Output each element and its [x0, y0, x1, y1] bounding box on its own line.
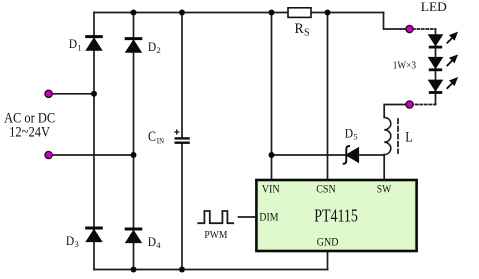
svg-text:L: L — [405, 129, 413, 146]
svg-text:3: 3 — [75, 239, 79, 249]
svg-text:R: R — [295, 21, 304, 37]
svg-text:SW: SW — [377, 181, 392, 195]
svg-text:LED: LED — [421, 0, 447, 14]
svg-text:GND: GND — [317, 234, 339, 248]
svg-text:2: 2 — [157, 45, 161, 55]
svg-text:12~24V: 12~24V — [9, 125, 50, 141]
svg-text:IN: IN — [157, 136, 164, 146]
svg-text:D: D — [148, 234, 156, 249]
svg-text:1W×3: 1W×3 — [393, 59, 416, 71]
svg-text:D: D — [69, 36, 77, 51]
svg-text:VIN: VIN — [262, 181, 280, 195]
svg-text:DIM: DIM — [259, 209, 278, 223]
svg-text:D: D — [66, 233, 74, 248]
svg-text:5: 5 — [353, 132, 357, 142]
svg-text:1: 1 — [77, 42, 81, 52]
svg-text:D: D — [345, 126, 353, 141]
svg-text:D: D — [148, 39, 156, 54]
svg-text:4: 4 — [156, 240, 161, 250]
svg-text:CSN: CSN — [316, 181, 336, 195]
svg-text:PWM: PWM — [204, 229, 227, 241]
svg-text:S: S — [304, 28, 310, 39]
svg-text:C: C — [148, 129, 156, 145]
svg-text:PT4115: PT4115 — [314, 206, 358, 226]
